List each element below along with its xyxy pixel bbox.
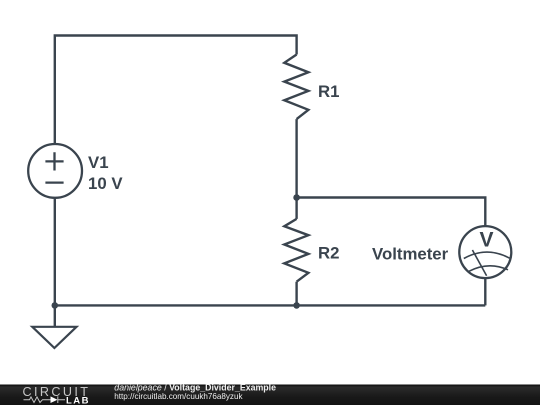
svg-text:R2: R2 xyxy=(318,244,339,263)
wire: V1 - terminal down to ground node xyxy=(54,198,56,306)
svg-text:R1: R1 xyxy=(318,82,339,101)
wire bottom rail xyxy=(55,304,486,306)
wire top: V1 + terminal up and across to R1 xyxy=(55,36,297,145)
ground node junction dot xyxy=(52,302,59,309)
svg-text:danielpeace / Voltage_Divider_: danielpeace / Voltage_Divider_Example xyxy=(114,383,276,393)
wire: voltmeter bottom to bottom rail xyxy=(484,278,486,305)
voltmeter needle xyxy=(472,250,486,276)
voltmeter circle xyxy=(459,226,511,278)
voltmeter lower scale arc xyxy=(469,266,508,272)
resistor R2 xyxy=(284,219,308,282)
wire: node A to R2 top xyxy=(295,198,297,219)
V1 minus sign xyxy=(45,181,63,183)
svg-text:V: V xyxy=(480,229,494,252)
ground symbol triangle xyxy=(32,327,76,348)
svg-text:10 V: 10 V xyxy=(88,174,123,193)
resistor R1 xyxy=(284,55,308,120)
svg-text:http://circuitlab.com/cuukh76a: http://circuitlab.com/cuukh76a8yzuk xyxy=(114,392,243,401)
wire: node A to voltmeter top xyxy=(297,198,486,227)
voltmeter upper scale arc xyxy=(464,252,510,258)
node A junction dot xyxy=(293,194,300,201)
voltage source V1 circle xyxy=(28,144,82,198)
footer bar xyxy=(0,385,540,405)
svg-text:Voltmeter: Voltmeter xyxy=(372,244,449,263)
CircuitLab logo schematic line with resistor and diode xyxy=(24,396,66,403)
svg-text:V1: V1 xyxy=(88,153,109,172)
bottom rail junction dot at R2 xyxy=(293,302,300,309)
svg-text:LAB: LAB xyxy=(66,395,90,405)
wire: R2 bottom to bottom rail xyxy=(295,282,297,306)
wire: R1 bottom to node A xyxy=(295,119,297,197)
V1 plus sign xyxy=(45,152,63,170)
ground stub wire xyxy=(54,305,56,326)
